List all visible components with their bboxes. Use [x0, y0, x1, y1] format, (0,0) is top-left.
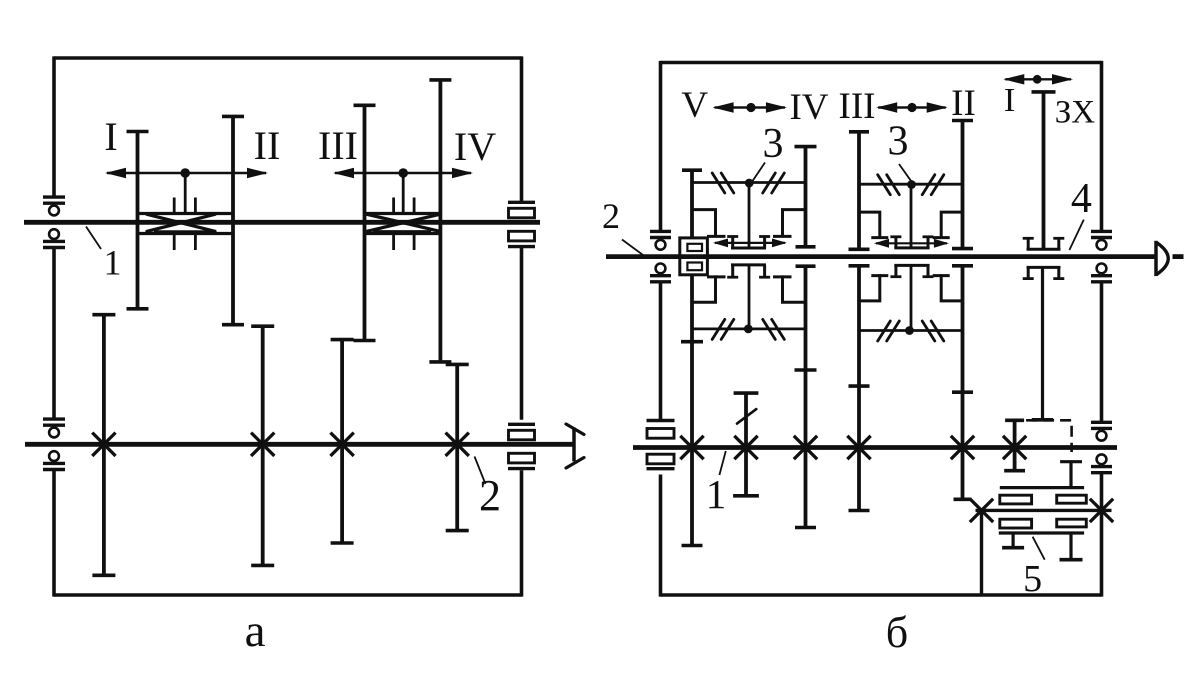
gear III line upper — [849, 132, 870, 250]
shift sleeve A — [727, 237, 770, 278]
gear I line — [127, 132, 149, 309]
output coupling fork, shaft 2 — [566, 424, 584, 468]
reverse idler engagement tee — [1060, 462, 1082, 488]
dog tooth bracket A right top — [773, 210, 806, 237]
dog tooth bracket B right top — [933, 212, 963, 238]
label 4 — [1071, 176, 1092, 222]
selector stem block 2 — [402, 173, 405, 214]
shift arrow III-IV with pivot dot — [333, 168, 473, 178]
label 1 leader (b) — [719, 451, 725, 475]
input coupling 2 (box with plates) — [680, 238, 708, 275]
label 1 leader line — [86, 227, 101, 250]
shift arrow V-IV — [713, 102, 787, 112]
label IV — [454, 124, 496, 169]
label 3 leader (block A) — [753, 163, 766, 182]
shift sleeve B — [890, 237, 933, 277]
cone clutch housing block 2 — [365, 214, 441, 234]
caption b — [886, 608, 908, 657]
svg-text:2: 2 — [479, 471, 501, 520]
gearbox housing frame (diagram a) — [54, 56, 522, 596]
ball bearing, counter shaft right — [1091, 422, 1112, 472]
label 2 leader line (b) — [622, 240, 643, 256]
cone friction clutch block 2 (bow-tie) — [367, 214, 440, 231]
counter shaft (diagram b) — [633, 445, 1117, 450]
svg-text:4: 4 — [1071, 176, 1092, 222]
shift arrows sleeve A — [713, 239, 787, 248]
shift arrow I-II with pivot dot — [105, 168, 268, 178]
svg-text:IV: IV — [789, 87, 828, 128]
dog tooth bracket A left bottom — [692, 277, 726, 302]
shift arrow III-II — [876, 102, 948, 112]
gear IV / counter gear line lower — [795, 266, 817, 527]
label 1 — [104, 243, 122, 283]
gear IV line — [429, 80, 451, 362]
spline hatches block 1 — [174, 198, 195, 251]
dog tooth bracket B left bottom — [859, 276, 888, 301]
gear V / counter gear line lower — [681, 275, 703, 546]
label 2 (b) — [602, 196, 620, 236]
idler support to housing — [980, 510, 983, 595]
dashed engaged position box — [1026, 420, 1072, 452]
shift arrows sleeve B — [874, 239, 949, 248]
svg-text:а: а — [245, 605, 266, 657]
gear IV line upper — [795, 147, 817, 247]
label ZX (reverse) — [1055, 95, 1096, 131]
label 2 — [479, 471, 501, 520]
selector stem A — [748, 183, 751, 329]
label 5 — [1023, 558, 1042, 600]
svg-text:I: I — [1004, 82, 1015, 119]
fixed gear g2 on shaft 2 — [251, 326, 274, 565]
svg-text:5: 5 — [1023, 558, 1042, 600]
svg-text:III: III — [318, 123, 358, 168]
gear III line — [354, 105, 376, 340]
sliding jaw sleeve I/ZX — [1023, 238, 1065, 278]
reverse driven stem — [1032, 267, 1053, 419]
label 2 leader line — [475, 457, 486, 485]
label 1 (b) — [706, 471, 727, 517]
ball bearing, shaft 1 left — [43, 197, 65, 247]
roller bearing, counter shaft left — [647, 421, 675, 469]
shaft 1 (input shaft, diagram a) — [24, 220, 540, 225]
svg-text:1: 1 — [104, 243, 122, 283]
label IV (b) — [789, 87, 828, 128]
fixed gear g3 on shaft 2 — [331, 340, 354, 543]
spline hatches block 2 — [394, 198, 415, 251]
svg-text:II: II — [951, 83, 976, 124]
selector stem block 1 — [184, 173, 187, 214]
roller bearing, shaft 1 right — [508, 202, 535, 246]
selector stem B — [910, 185, 913, 331]
svg-text:б: б — [886, 608, 908, 657]
svg-text:2: 2 — [602, 196, 620, 236]
shift arrow I — [1003, 74, 1073, 84]
svg-text:IV: IV — [454, 124, 496, 169]
dog tooth bracket A right bottom — [773, 277, 806, 302]
label 3 (block A) — [763, 121, 784, 167]
main shaft (diagram b) — [606, 254, 1184, 259]
gear II line — [222, 116, 244, 324]
dog tooth bracket B left top — [859, 212, 888, 238]
caption a — [245, 605, 266, 657]
fixed gear g4 on shaft 2 — [446, 364, 469, 530]
svg-text:3: 3 — [763, 121, 784, 167]
ball bearing, main shaft right — [1091, 231, 1112, 281]
label 3 (block B) — [888, 119, 909, 165]
svg-text:II: II — [254, 123, 281, 168]
gear 1 on counter shaft (b) — [733, 393, 759, 496]
label I (b) — [1004, 82, 1015, 119]
cone friction clutch block 1 (bow-tie) — [147, 214, 215, 231]
label III (b) — [839, 86, 876, 127]
reverse pinion on counter shaft — [1004, 420, 1025, 470]
svg-text:I: I — [104, 114, 117, 159]
gear II line upper — [952, 121, 973, 249]
label 3 leader (block B) — [899, 164, 912, 182]
svg-text:3: 3 — [888, 119, 909, 165]
reverse idler block 5 — [971, 488, 1112, 560]
synchronizer bar A top — [692, 173, 806, 193]
label I — [104, 114, 117, 159]
cone clutch housing block 1 — [138, 214, 234, 234]
synchronizer bar A bottom — [692, 319, 806, 339]
svg-text:V: V — [681, 85, 708, 126]
shaft 2 (output shaft, diagram a) — [25, 442, 574, 447]
synchronizer bar B bottom — [859, 321, 963, 341]
gearbox housing frame (diagram b) — [661, 61, 1102, 597]
label III — [318, 123, 358, 168]
svg-text:1: 1 — [706, 471, 727, 517]
ball bearing, main shaft left — [650, 231, 671, 281]
label V — [681, 85, 708, 126]
label 4 leader — [1069, 220, 1083, 250]
label 5 leader — [1033, 537, 1045, 560]
svg-text:ЗХ: ЗХ — [1055, 95, 1096, 131]
label II (b) — [951, 83, 976, 124]
label II — [254, 123, 281, 168]
gear V line upper — [682, 170, 702, 238]
synchronizer bar B top — [859, 175, 963, 195]
output flange (half disc) — [1156, 241, 1168, 276]
ball bearing, shaft 2 left — [43, 419, 65, 469]
roller bearing, shaft 2 right — [508, 424, 535, 468]
dog tooth bracket B right bottom — [933, 276, 963, 301]
fixed gear g1 on shaft 2 — [92, 315, 115, 576]
dog tooth bracket A left top — [692, 210, 726, 237]
gear I line (b) — [1032, 92, 1056, 249]
svg-text:III: III — [839, 86, 876, 127]
gear III / counter gear line lower — [849, 266, 870, 511]
gear II / counter gear line lower — [952, 266, 973, 500]
